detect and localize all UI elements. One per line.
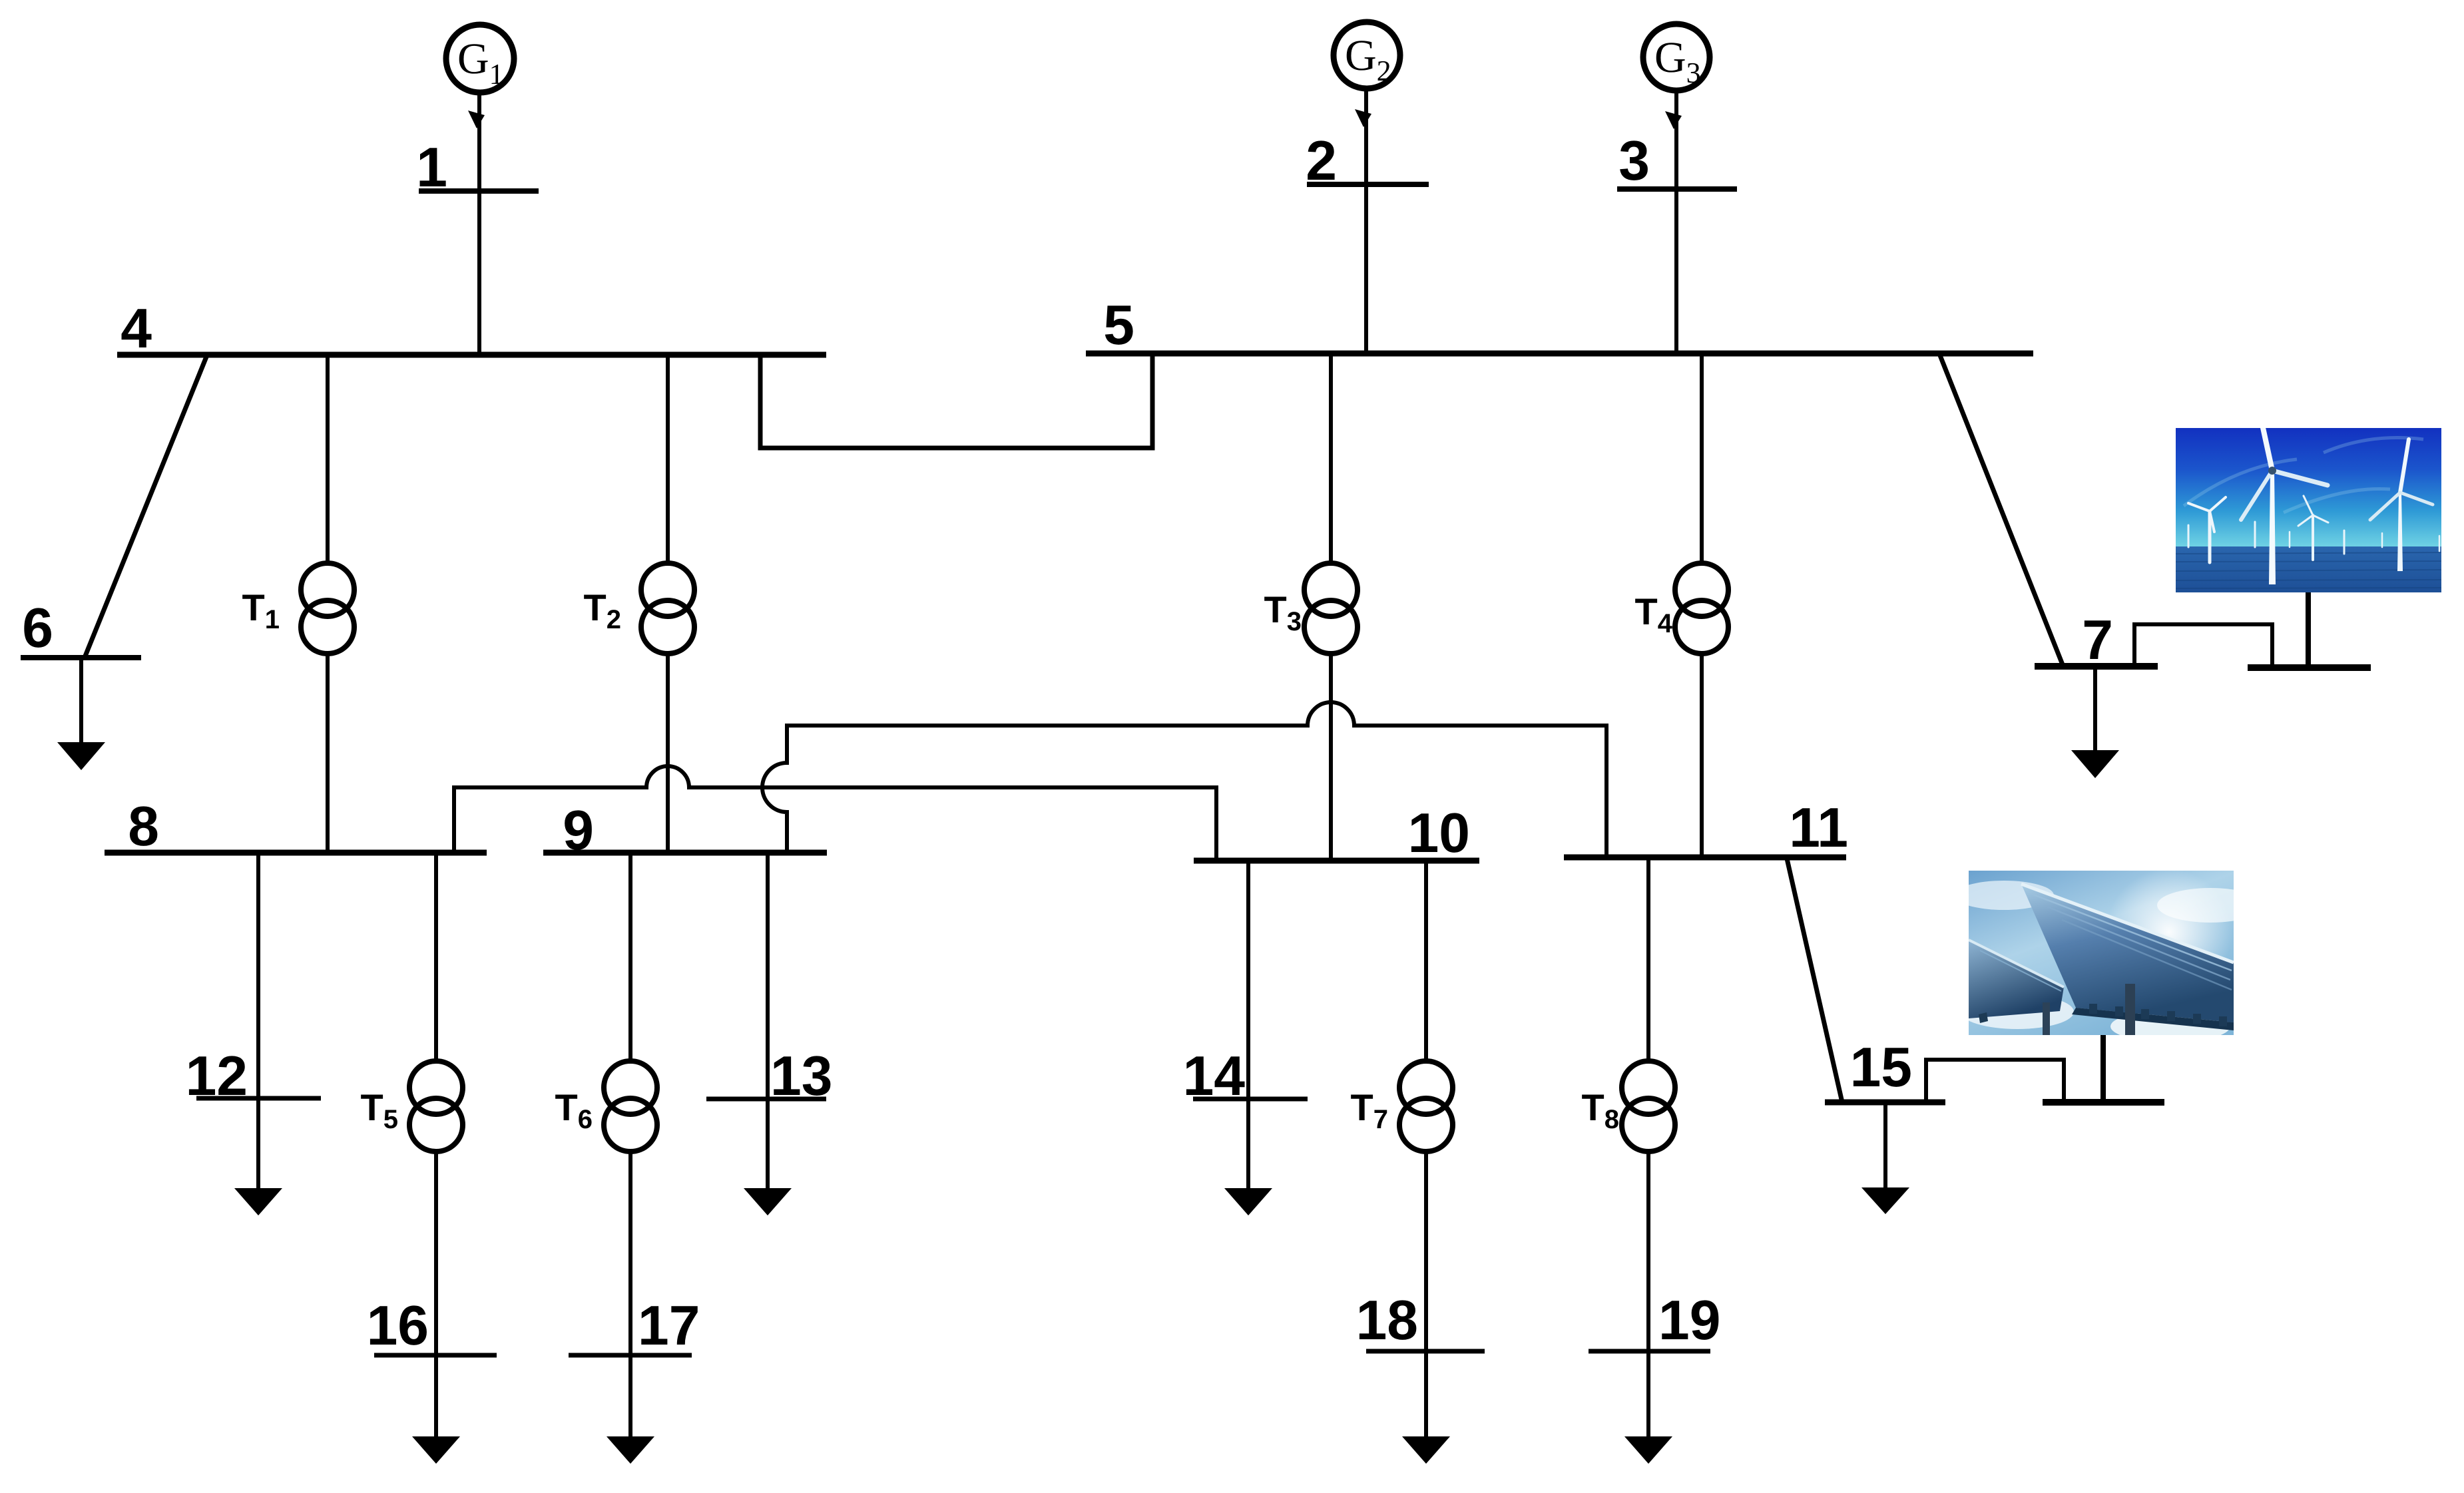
wire line 8-10 with hop	[454, 766, 1216, 863]
wire T7 to bus 18 and load	[1356, 1149, 1485, 1464]
bus 1	[419, 188, 539, 194]
svg-text:9: 9	[563, 799, 594, 861]
distant small turbines	[2188, 496, 2439, 560]
bus 9	[543, 850, 827, 856]
wire G1 lead	[477, 91, 481, 355]
generator G2	[1334, 22, 1400, 89]
svg-text:19: 19	[1658, 1289, 1720, 1351]
transformer T3	[1264, 563, 1357, 654]
bus 15	[1825, 1100, 1945, 1106]
wire T8 to bus 19 and load	[1589, 1149, 1720, 1464]
generator G1	[446, 25, 514, 93]
bus 8	[105, 850, 487, 856]
svg-text:3: 3	[1618, 129, 1650, 192]
load at bus 10 node 14	[1183, 861, 1308, 1215]
wire line 9-11 with hops	[762, 702, 1606, 859]
svg-text:12: 12	[186, 1044, 248, 1107]
wire bus7 to wind terminal bridge	[2134, 624, 2272, 666]
bus 6	[21, 655, 141, 660]
transformer T1	[242, 563, 354, 654]
svg-text:7: 7	[2082, 608, 2113, 671]
load at bus 7	[2071, 666, 2119, 778]
G1 lead arrowhead	[468, 110, 485, 128]
wire bus5 to T4	[1700, 351, 1704, 566]
image wind farm photo	[2176, 425, 2441, 592]
wire G3 lead	[1674, 89, 1678, 352]
wire G2 lead	[1364, 87, 1368, 352]
wire bus4 to T1	[326, 352, 330, 566]
left medium turbine	[2188, 497, 2226, 562]
bus 5	[1086, 351, 2033, 357]
transformer T8	[1582, 1061, 1675, 1152]
bus 4	[117, 352, 826, 358]
svg-text:8: 8	[128, 795, 159, 857]
svg-text:18: 18	[1356, 1289, 1418, 1351]
node wind farm terminal bar	[2248, 664, 2371, 671]
back-left panel	[1969, 940, 2064, 1018]
wire solar image stand	[2100, 1034, 2106, 1101]
svg-text:17: 17	[638, 1294, 700, 1357]
transformer T7	[1351, 1061, 1453, 1152]
bus 3	[1617, 186, 1737, 192]
wire line 5-7 diagonal	[1940, 355, 2063, 666]
transformer T5	[361, 1061, 463, 1152]
svg-text:4: 4	[121, 297, 152, 359]
bus 11	[1564, 855, 1846, 861]
main large turbine	[2241, 425, 2328, 584]
wire bus15 to solar terminal bridge	[1926, 1060, 2064, 1102]
right large turbine	[2370, 439, 2433, 571]
wire T1 to bus 8	[326, 651, 330, 855]
G3 lead arrowhead	[1665, 111, 1682, 129]
wire wind image stand	[2306, 591, 2311, 666]
G2 lead arrowhead	[1355, 109, 1371, 127]
image solar panels photo	[1954, 869, 2267, 1042]
svg-text:16: 16	[367, 1294, 429, 1357]
svg-text:13: 13	[770, 1044, 832, 1107]
wire line 11-15 diagonal	[1787, 859, 1842, 1102]
transformer T2	[584, 563, 694, 654]
wire bus8 to T5	[434, 850, 438, 1064]
wire T4 to bus 11	[1700, 651, 1704, 860]
svg-text:1: 1	[416, 136, 447, 198]
transformer T4	[1635, 563, 1728, 654]
bus 2	[1307, 182, 1429, 187]
wire T2 to bus 9	[666, 651, 670, 855]
bus 7	[2035, 663, 2158, 670]
load at bus 15	[1861, 1102, 1909, 1214]
wire T6 to bus 17 and load	[569, 1149, 700, 1464]
svg-text:5: 5	[1103, 294, 1134, 356]
svg-text:10: 10	[1408, 801, 1470, 864]
wire bus10 to T7	[1424, 858, 1428, 1064]
wire T3 to bus 10	[1329, 651, 1333, 863]
bus 10	[1194, 858, 1479, 864]
load at bus 8 node 12	[186, 853, 321, 1215]
wire bus9 to T6	[628, 850, 632, 1064]
wire line 4-6 diagonal	[85, 357, 206, 658]
node solar terminal bar	[2043, 1099, 2164, 1106]
wire bus4 to T2	[666, 352, 670, 566]
load at bus 6	[57, 658, 105, 770]
front-right panel	[2021, 884, 2234, 1022]
generator G3	[1643, 24, 1710, 91]
svg-text:2: 2	[1306, 129, 1337, 192]
wire bus5 to T3	[1329, 351, 1333, 566]
svg-text:15: 15	[1850, 1036, 1912, 1098]
load at bus 9 node 13	[706, 853, 832, 1215]
transformer T6	[555, 1061, 657, 1152]
wire T5 to bus 16 and load	[367, 1149, 497, 1464]
svg-text:6: 6	[22, 596, 53, 659]
svg-text:11: 11	[1789, 796, 1848, 859]
wire line 4-5 U link	[760, 353, 1152, 448]
svg-text:14: 14	[1183, 1044, 1246, 1107]
wire bus11 to T8	[1646, 855, 1650, 1064]
